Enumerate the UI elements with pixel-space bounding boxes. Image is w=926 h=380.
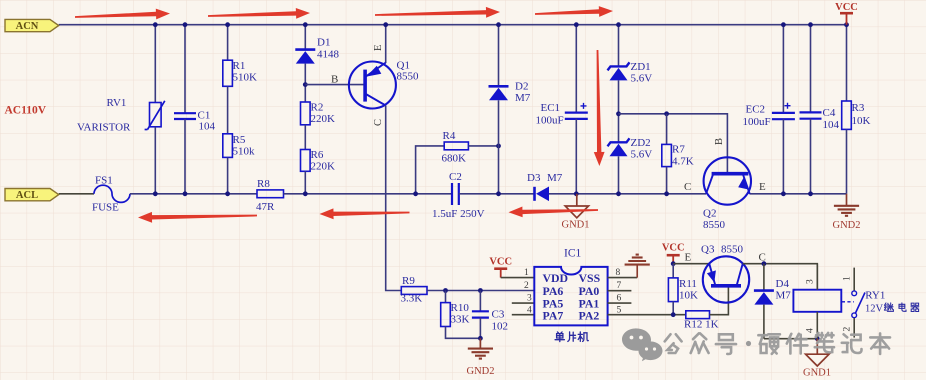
svg-text:RV1: RV1 bbox=[107, 97, 127, 109]
svg-text:7: 7 bbox=[617, 281, 622, 291]
svg-text:D4: D4 bbox=[776, 278, 790, 290]
wire relay coil bottom to GND1 bbox=[764, 338, 819, 340]
svg-text:ACN: ACN bbox=[16, 21, 39, 32]
capacitor EC2 polarized bbox=[772, 112, 795, 114]
wire IC pin 6 stub bbox=[608, 302, 632, 304]
wire ZD1 to ZD2 bbox=[618, 80, 620, 142]
junction bottom rail EC1 GND1 bbox=[574, 191, 579, 196]
svg-text:M7: M7 bbox=[547, 172, 563, 184]
svg-text:FS1: FS1 bbox=[95, 175, 113, 187]
power VCC at R11 bbox=[667, 254, 680, 257]
junction top rail D1 bbox=[303, 22, 308, 27]
wire base of Q1 bbox=[305, 84, 363, 86]
wire IC pin 3 stub bbox=[512, 302, 535, 304]
svg-text:2: 2 bbox=[843, 327, 853, 332]
junction top rail EC1 bbox=[574, 22, 579, 27]
wire bottom rail segment ACL to fuse bbox=[59, 193, 94, 195]
svg-text:680K: 680K bbox=[442, 153, 467, 165]
wire R4 branch from bottom rail bbox=[416, 146, 445, 194]
wire R7 bottom lead bbox=[666, 167, 668, 194]
wire bottom rail fuse to R8 bbox=[130, 193, 257, 195]
wire Q3 collector to relay bbox=[743, 264, 818, 290]
wire EC1 branch bottom bbox=[575, 119, 577, 194]
svg-text:47R: 47R bbox=[256, 201, 275, 213]
svg-text:VARISTOR: VARISTOR bbox=[77, 122, 131, 134]
wire C4 branch bottom bbox=[810, 119, 812, 194]
svg-text:R8: R8 bbox=[257, 178, 270, 190]
resistor R8 bbox=[257, 190, 284, 198]
junction top rail C1 bbox=[183, 22, 188, 27]
svg-text:4: 4 bbox=[806, 328, 816, 333]
wire R12 to Q3 base bbox=[710, 288, 729, 315]
wire C4 branch top bbox=[810, 25, 812, 113]
relay contact pin 1 stub bbox=[853, 268, 855, 291]
relay RY1 coil box bbox=[793, 290, 841, 312]
wire D4 top lead bbox=[763, 264, 765, 291]
svg-text:GND2: GND2 bbox=[833, 220, 861, 231]
svg-text:ZD1: ZD1 bbox=[631, 61, 651, 73]
svg-text:VCC: VCC bbox=[489, 257, 512, 268]
wire IC pin 4 stub bbox=[512, 314, 535, 316]
junction D4 top bbox=[762, 261, 767, 266]
junction R11 top Q3 emitter node bbox=[671, 261, 676, 266]
svg-text:D1: D1 bbox=[317, 37, 330, 49]
op-amp IC1 body bbox=[534, 267, 607, 326]
svg-text:RY1: RY1 bbox=[865, 290, 885, 302]
junction top rail R3 VCC bbox=[844, 22, 849, 27]
svg-text:3: 3 bbox=[527, 294, 532, 304]
relay contact blade bbox=[856, 293, 866, 314]
power VCC top right bbox=[840, 12, 853, 15]
diode D3 bbox=[533, 187, 536, 201]
wire bottom rail D3 to Q2 collector bbox=[549, 193, 706, 195]
junction ZD node bbox=[616, 111, 621, 116]
current arrow bottom left bbox=[138, 212, 257, 223]
relay actuation dashed link bbox=[842, 301, 854, 303]
junction bottom rail R6 bbox=[303, 191, 308, 196]
junction top rail ZD1 bbox=[616, 22, 621, 27]
svg-text:R1: R1 bbox=[233, 60, 246, 72]
current arrow bottom middle bbox=[320, 208, 410, 219]
capacitor C4 bbox=[800, 111, 822, 113]
svg-text:510k: 510k bbox=[233, 146, 256, 158]
junction top rail Q1 emitter bbox=[383, 22, 388, 27]
wire RV1 branch bottom bbox=[154, 127, 156, 194]
wire R10 top lead bbox=[445, 291, 447, 303]
junction bottom rail ZD2 bbox=[616, 191, 621, 196]
wire RV1 branch top bbox=[154, 25, 156, 103]
wire relay pin 4 bbox=[816, 312, 818, 339]
wire ZD2 branch bottom bbox=[618, 156, 620, 194]
svg-text:B: B bbox=[331, 74, 338, 86]
svg-text:4: 4 bbox=[527, 305, 532, 315]
svg-text:R7: R7 bbox=[672, 144, 685, 156]
svg-text:PA2: PA2 bbox=[579, 309, 600, 323]
wire R11 bottom lead bbox=[672, 302, 674, 315]
wire R6 branch bottom bbox=[304, 171, 306, 194]
junction R10 top bbox=[443, 288, 448, 293]
transistor Q1 bbox=[349, 62, 396, 109]
wire IC pin 8 stub bbox=[608, 277, 638, 279]
svg-text:M7: M7 bbox=[776, 290, 792, 302]
capacitor C2 bbox=[451, 183, 453, 205]
svg-text:33K: 33K bbox=[451, 314, 470, 326]
relay contact pin 2 stub bbox=[853, 318, 855, 338]
resistor R2 bbox=[301, 102, 311, 125]
svg-text:EC2: EC2 bbox=[746, 104, 766, 116]
svg-text:1.5uF 250V: 1.5uF 250V bbox=[432, 208, 485, 220]
svg-text:100uF: 100uF bbox=[536, 115, 564, 127]
current arrow top 3 bbox=[375, 7, 500, 18]
junction bottom rail C1 bbox=[183, 191, 188, 196]
wire D2 branch top bbox=[498, 25, 500, 87]
svg-text:D3: D3 bbox=[527, 172, 541, 184]
svg-text:12V: 12V bbox=[865, 304, 884, 315]
port label ACN bbox=[5, 19, 59, 31]
current arrow top 1 bbox=[75, 9, 170, 20]
diode D1 bbox=[295, 48, 315, 51]
wire ZD node to Q2 base bbox=[619, 114, 728, 173]
varistor RV1 bbox=[150, 103, 162, 127]
wire bottom rail Q2 emitter to GND2 corner bbox=[750, 193, 847, 195]
svg-text:510K: 510K bbox=[233, 72, 258, 84]
junction top rail EC2 bbox=[781, 22, 786, 27]
resistor R7 bbox=[662, 144, 672, 166]
resistor R5 bbox=[223, 134, 233, 158]
svg-text:8550: 8550 bbox=[721, 244, 744, 256]
junction top rail D2 bbox=[496, 22, 501, 27]
svg-text:VDD: VDD bbox=[543, 271, 569, 285]
svg-text:GND1: GND1 bbox=[803, 368, 831, 379]
svg-text:220K: 220K bbox=[311, 113, 336, 125]
svg-text:104: 104 bbox=[823, 119, 840, 131]
svg-text:E: E bbox=[373, 45, 384, 51]
junction node B bbox=[303, 82, 308, 87]
resistor R1 bbox=[223, 60, 233, 86]
resistor R4 bbox=[444, 142, 468, 150]
wire top rail ACN bbox=[59, 24, 847, 26]
ground GND2 right bbox=[846, 194, 848, 206]
capacitor EC1 polarized bbox=[565, 111, 588, 113]
svg-text:1: 1 bbox=[843, 276, 853, 281]
wire R5 branch bottom bbox=[227, 157, 229, 193]
junction bottom rail R7 bbox=[664, 191, 669, 196]
label 单片机 microcontroller hand-drawn bbox=[555, 332, 588, 342]
svg-text:VSS: VSS bbox=[579, 271, 601, 285]
junction bottom rail R4 bbox=[413, 191, 418, 196]
wire R7 top lead bbox=[666, 114, 668, 145]
svg-text:ACL: ACL bbox=[16, 190, 38, 201]
port label ACL bbox=[5, 189, 59, 201]
svg-text:B: B bbox=[714, 138, 725, 145]
wire R9 to IC pin2 bbox=[427, 290, 534, 292]
svg-text:5.6V: 5.6V bbox=[631, 73, 653, 85]
current arrow top 4 bbox=[535, 6, 613, 17]
svg-text:2: 2 bbox=[524, 281, 529, 291]
junction bottom rail EC2 bbox=[781, 191, 786, 196]
svg-text:C4: C4 bbox=[823, 107, 836, 119]
svg-text:6: 6 bbox=[617, 294, 622, 304]
resistor R11 bbox=[668, 278, 678, 302]
junction top rail R1 bbox=[225, 22, 230, 27]
svg-text:5.6V: 5.6V bbox=[631, 149, 653, 161]
svg-text:8550: 8550 bbox=[703, 219, 726, 231]
svg-text:R5: R5 bbox=[233, 134, 246, 146]
svg-text:104: 104 bbox=[199, 121, 216, 133]
svg-text:AC110V: AC110V bbox=[5, 105, 47, 117]
ground GND1 power symbol bbox=[576, 194, 578, 206]
current arrow top 2 bbox=[208, 8, 310, 19]
svg-text:C: C bbox=[684, 181, 691, 193]
junction bottom rail C4 bbox=[808, 191, 813, 196]
wire C1 branch top bbox=[184, 25, 186, 114]
junction R11 R12 node bbox=[671, 312, 676, 317]
wire D4 bottom lead bbox=[763, 305, 765, 339]
svg-text:PA7: PA7 bbox=[543, 309, 564, 323]
ground GND1 relay bbox=[816, 339, 818, 355]
junction C3 GND2 node bbox=[478, 336, 483, 341]
power VCC at IC pin1 bbox=[494, 267, 507, 270]
resistor R6 bbox=[301, 150, 311, 172]
transistor Q3 bbox=[703, 256, 749, 302]
wire C3 bottom lead bbox=[479, 318, 481, 339]
diode D4 bbox=[754, 289, 774, 292]
diode D2 bbox=[489, 85, 509, 88]
ground earth at pin 8 bbox=[636, 265, 638, 278]
capacitor C3 bbox=[472, 310, 489, 312]
svg-text:4148: 4148 bbox=[317, 49, 340, 61]
svg-text:C: C bbox=[373, 119, 384, 126]
junction R7 top bbox=[664, 111, 669, 116]
wire IC pin 7 stub bbox=[608, 290, 632, 292]
resistor R10 bbox=[441, 303, 451, 327]
svg-text:VCC: VCC bbox=[835, 2, 858, 13]
wire bottom rail C2 to D3 bbox=[459, 193, 535, 195]
junction top rail RV1 bbox=[153, 22, 158, 27]
svg-text:3: 3 bbox=[806, 279, 816, 284]
wire bottom rail R8 to C2 bbox=[284, 193, 453, 195]
watermark wechat icon bbox=[622, 328, 663, 361]
wire R10 bottom to C3 bottom bbox=[446, 327, 481, 339]
svg-text:100uF: 100uF bbox=[743, 116, 771, 128]
wire R11 top lead bbox=[672, 264, 674, 278]
svg-text:8: 8 bbox=[616, 268, 621, 278]
wire Q1 emitter to top rail bbox=[385, 25, 387, 63]
svg-text:FUSE: FUSE bbox=[92, 202, 119, 214]
svg-text:8550: 8550 bbox=[397, 71, 420, 83]
zener diode ZD2 bbox=[608, 138, 630, 146]
resistor R3 bbox=[842, 101, 852, 129]
watermark text hand-drawn bbox=[665, 333, 890, 354]
svg-text:4.7K: 4.7K bbox=[672, 156, 694, 168]
junction top rail C4 bbox=[808, 22, 813, 27]
wire IC pin 1 stub bbox=[501, 277, 535, 279]
capacitor C1 bbox=[174, 112, 196, 114]
junction C3 top bbox=[478, 288, 483, 293]
wire D2 branch bottom bbox=[498, 100, 500, 194]
svg-text:E: E bbox=[685, 252, 692, 264]
svg-text:C3: C3 bbox=[492, 309, 505, 321]
wire IC pin 5 to R12 bbox=[608, 314, 686, 316]
svg-text:Q2: Q2 bbox=[703, 208, 716, 220]
svg-text:R4: R4 bbox=[443, 130, 456, 142]
zener diode ZD1 bbox=[608, 62, 630, 70]
junction bottom rail D2 C2 D3 node bbox=[496, 191, 501, 196]
wire ZD1 branch top bbox=[618, 25, 620, 67]
svg-text:IC1: IC1 bbox=[564, 248, 582, 260]
wire EC2 branch bottom bbox=[782, 119, 784, 194]
wire EC1 branch top bbox=[575, 25, 577, 113]
svg-text:R6: R6 bbox=[311, 149, 324, 161]
resistor R12 bbox=[686, 311, 710, 319]
relay contact lower circle bbox=[852, 313, 857, 318]
junction bottom rail R5 bbox=[225, 191, 230, 196]
svg-text:GND1: GND1 bbox=[562, 220, 590, 231]
junction bottom rail RV1 bbox=[153, 191, 158, 196]
svg-text:D2: D2 bbox=[515, 81, 528, 93]
svg-text:R9: R9 bbox=[402, 275, 415, 287]
svg-text:10K: 10K bbox=[679, 290, 698, 302]
wire relay pin 3 bbox=[816, 264, 818, 290]
svg-text:R11: R11 bbox=[679, 278, 697, 290]
wire R1 to R5 bbox=[227, 86, 229, 134]
svg-text:102: 102 bbox=[492, 321, 509, 333]
junction R4 D2 node bbox=[496, 144, 501, 149]
wire EC2 branch top bbox=[782, 25, 784, 113]
svg-text:M7: M7 bbox=[515, 92, 531, 104]
ground GND2 lower bbox=[479, 338, 481, 348]
svg-text:R3: R3 bbox=[852, 102, 865, 114]
transistor Q2 bbox=[704, 157, 751, 204]
svg-text:R12 1K: R12 1K bbox=[684, 319, 719, 331]
svg-text:C2: C2 bbox=[449, 171, 462, 183]
wire C3 top lead bbox=[479, 291, 481, 312]
svg-text:R10: R10 bbox=[451, 302, 470, 314]
svg-text:3.3K: 3.3K bbox=[401, 293, 423, 305]
svg-text:ZD2: ZD2 bbox=[631, 137, 651, 149]
wire R3 branch top bbox=[846, 25, 848, 101]
wire R4 to D2 branch bbox=[468, 145, 498, 147]
wire Q3 emitter bbox=[673, 263, 709, 265]
svg-text:220K: 220K bbox=[311, 161, 336, 173]
svg-text:E: E bbox=[759, 181, 766, 193]
svg-text:1: 1 bbox=[524, 268, 529, 278]
wire D1 to node B bbox=[304, 64, 306, 102]
wire C1 branch bottom bbox=[184, 119, 186, 194]
wire R1 branch top bbox=[227, 25, 229, 61]
svg-text:R2: R2 bbox=[311, 102, 324, 114]
svg-text:VCC: VCC bbox=[662, 243, 685, 254]
wire D1 branch top bbox=[304, 25, 306, 50]
relay contact upper circle bbox=[852, 291, 857, 296]
junction relay pin4 GND1 bbox=[815, 336, 820, 341]
svg-text:GND2: GND2 bbox=[467, 366, 495, 377]
svg-text:10K: 10K bbox=[852, 115, 871, 127]
wire Q1 collector down to R9 bbox=[386, 106, 402, 291]
wire R3 branch bottom bbox=[846, 129, 848, 193]
current arrow bottom right bbox=[509, 207, 599, 218]
resistor R9 bbox=[401, 287, 427, 295]
wire R2 to R6 bbox=[304, 125, 306, 150]
fuse FS1 bbox=[94, 185, 130, 202]
current arrow down EC1 bbox=[594, 50, 605, 166]
svg-text:5: 5 bbox=[617, 305, 622, 315]
svg-text:EC1: EC1 bbox=[541, 102, 561, 114]
svg-text:Q3: Q3 bbox=[701, 244, 715, 256]
